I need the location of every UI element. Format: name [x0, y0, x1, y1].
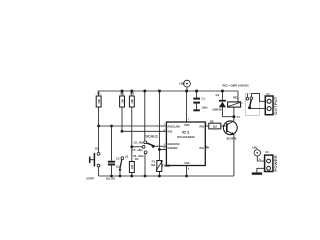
relay coil RE1	[228, 91, 244, 117]
supply terminal +9V (main)	[179, 80, 190, 91]
svg-text:10k: 10k	[120, 99, 124, 104]
svg-text:VSS: VSS	[184, 161, 189, 165]
node junction scale gnd on rail	[144, 175, 147, 178]
svg-text:8: 8	[188, 169, 190, 171]
node T1 collector junction	[232, 115, 235, 118]
wire +9V top bus	[98, 90, 238, 92]
capacitor C2	[108, 126, 121, 176]
node junction C2/wireA	[110, 125, 113, 128]
svg-text:10u 16V: 10u 16V	[106, 178, 116, 180]
diode D1	[212, 91, 226, 117]
svg-text:VDD: VDD	[184, 123, 190, 127]
svg-text:2k2: 2k2	[213, 125, 218, 129]
svg-text:RA2/AN2: RA2/AN2	[168, 147, 179, 150]
svg-text:15...90s: 15...90s	[134, 140, 144, 144]
rotary switch SCALE	[131, 91, 166, 176]
svg-text:C2: C2	[116, 157, 120, 161]
svg-text:C1: C1	[201, 96, 205, 100]
wire K2 lower pin to ground	[257, 168, 265, 172]
svg-text:RA3: RA3	[168, 131, 173, 134]
svg-text:R1: R1	[97, 92, 101, 96]
svg-text:K1: K1	[267, 92, 271, 96]
svg-text:T1: T1	[237, 115, 241, 119]
svg-text:10k: 10k	[97, 99, 101, 104]
pushbutton S1	[86, 126, 100, 181]
wire IC RA1 stub	[205, 147, 209, 149]
wire RA5 net (R1 node to IC pin)	[99, 125, 167, 127]
node junction P1 column on bus	[158, 90, 161, 93]
svg-text:1N4148: 1N4148	[212, 108, 222, 112]
node junction R3/R4 divider	[130, 145, 133, 148]
svg-text:10k: 10k	[130, 99, 134, 104]
ground bar power	[252, 172, 262, 174]
transistor Q1 BC547B	[223, 117, 237, 176]
node junction R2 on bus	[121, 90, 124, 93]
node junction C1 column on bus	[195, 90, 198, 93]
svg-text:PIC12F1840: PIC12F1840	[177, 135, 195, 139]
node junction R2/wireB	[121, 130, 124, 133]
node junction VDD column on bus	[185, 90, 188, 93]
capacitor C1	[193, 91, 208, 110]
wire contact pole to K1 lower pin	[250, 107, 266, 109]
svg-text:1M: 1M	[151, 163, 156, 167]
wire IC VSS pin	[186, 166, 188, 177]
svg-text:D1: D1	[216, 93, 220, 97]
svg-text:100n: 100n	[201, 106, 208, 110]
node junction R4 on rail	[130, 175, 133, 178]
svg-text:10k: 10k	[130, 164, 134, 169]
svg-text:15...90m: 15...90m	[133, 154, 144, 158]
node junction R3 on bus	[130, 90, 133, 93]
ground bar C1	[193, 109, 199, 111]
svg-text:2: 2	[242, 103, 244, 105]
resistor R5	[205, 119, 227, 128]
svg-text:R5: R5	[210, 119, 214, 123]
connector K1	[265, 92, 278, 115]
wire D1 anode to collector node	[222, 116, 234, 118]
resistor R4	[129, 147, 138, 176]
svg-text:+: +	[259, 157, 261, 161]
supply terminal +9V (power input)	[252, 146, 265, 161]
svg-text:RA5/CLKIN: RA5/CLKIN	[168, 125, 181, 128]
node junction C2 on rail	[110, 175, 113, 178]
node junction R1/wireA	[97, 125, 100, 128]
resistor R2	[120, 91, 125, 131]
op-amp IC1 PIC12F1840 box	[166, 122, 205, 166]
svg-text:2.5...15m: 2.5...15m	[131, 148, 143, 152]
svg-text:1: 1	[188, 119, 190, 121]
wire IC VDD pin	[186, 91, 188, 122]
switch S2	[119, 154, 129, 176]
svg-text:K2: K2	[266, 150, 270, 154]
svg-text:START: START	[86, 178, 94, 180]
svg-text:BC547B: BC547B	[227, 136, 237, 140]
connector K2	[265, 150, 278, 172]
svg-text:SCALE: SCALE	[145, 133, 158, 138]
svg-text:POWER: POWER	[273, 155, 278, 172]
node junction S2 on rail	[119, 175, 122, 178]
node junction scale column on bus	[143, 90, 146, 93]
resistor R3	[129, 91, 134, 147]
wire contact NO to K1 upper pin	[251, 94, 265, 102]
node junction P1 on rail	[158, 175, 161, 178]
node junction D1 column on bus	[221, 90, 224, 93]
relay contact	[245, 94, 259, 116]
svg-text:RE1 = OMR 1A/5VDC: RE1 = OMR 1A/5VDC	[222, 84, 249, 88]
svg-text:RE1: RE1	[233, 96, 239, 100]
svg-text:RA4/SOSC: RA4/SOSC	[168, 143, 180, 146]
node junction VSS on rail	[185, 175, 188, 178]
svg-text:+9V: +9V	[179, 82, 186, 86]
svg-text:S2: S2	[125, 154, 129, 158]
svg-text:RA0: RA0	[199, 125, 204, 128]
wire bottom ground rail	[99, 175, 234, 177]
node junction P1 tap	[158, 148, 161, 151]
svg-text:RA1: RA1	[199, 147, 204, 150]
potentiometer P1 TIME	[151, 91, 171, 176]
resistor R1	[96, 91, 101, 126]
svg-text:OUTPUT: OUTPUT	[273, 96, 278, 114]
svg-text:S1: S1	[95, 146, 99, 150]
wire RA3 net (R2 node to IC pin)	[122, 130, 166, 132]
